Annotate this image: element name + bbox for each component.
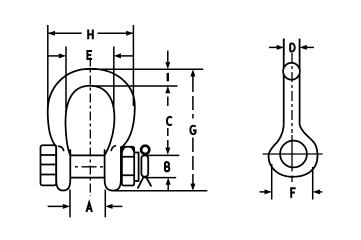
G dimension line with arrows: [190, 69, 195, 76]
nut facet line 2: [122, 174, 134, 176]
A dimension arrows (outside): [48, 205, 64, 207]
E dimension arrows (outside): [48, 55, 60, 57]
label C: [167, 117, 172, 125]
A extension line left: [69, 190, 71, 218]
bolt head facet line 3: [41, 174, 57, 176]
right view vertical centerline: [291, 53, 293, 133]
bow-section pinch arrow above: [167, 51, 169, 62]
cotter pin prong left: [138, 177, 144, 189]
G bottom extension line: [113, 190, 207, 192]
label A: [86, 203, 92, 212]
shank right edge: [299, 39, 301, 125]
pin end protrusion: [134, 153, 138, 182]
label D: [290, 44, 295, 52]
A extension line right: [104, 190, 106, 218]
G top extension line: [86, 68, 203, 70]
bolt head: [41, 145, 57, 185]
bow section circle: [283, 63, 300, 80]
B top extension line: [143, 154, 180, 156]
right ear shoulder: [111, 146, 115, 151]
E extension line right: [113, 47, 115, 111]
pin hole circle: [280, 141, 307, 168]
shank left edge: [283, 39, 285, 125]
nut: [122, 147, 134, 186]
label G: [190, 126, 195, 134]
left ear: [56, 146, 70, 191]
B bottom outside arrow: [166, 178, 171, 185]
H extension line left: [47, 25, 49, 108]
F extension ticks: [271, 164, 273, 200]
bolt head facet line 2: [41, 164, 57, 166]
H extension line right: [132, 25, 134, 106]
D extension ticks: [283, 39, 285, 56]
pin bottom line: [70, 177, 104, 179]
hole horizontal centerline: [263, 153, 323, 155]
right ear: [105, 147, 121, 191]
bow inner arc: [65, 86, 114, 156]
C top extension line: [93, 85, 178, 87]
D dimension arrows (outside): [269, 46, 278, 48]
label E: [87, 51, 92, 59]
vertical centerline: [89, 58, 91, 197]
ear blob with flares: [269, 125, 318, 177]
centerlines left view: [75, 58, 104, 197]
label B: [165, 162, 169, 171]
C dimension line with arrows: [165, 86, 170, 93]
bolt head facet line 1: [41, 154, 57, 156]
cotter pin body: [141, 155, 148, 177]
B bottom extension line: [143, 177, 176, 179]
label F: [291, 188, 296, 198]
H dimension line with arrows: [48, 32, 82, 34]
label H: [88, 30, 93, 40]
cotter pin ring: [141, 146, 149, 154]
nut top chamfer left: [122, 147, 125, 152]
bow-section pinch bar: [167, 73, 169, 81]
bow outer arc: [48, 69, 135, 148]
left ear shoulder: [59, 146, 64, 150]
pin top line: [70, 154, 104, 156]
F dimension arrows (outside): [260, 191, 267, 193]
nut top chamfer right: [131, 147, 134, 152]
E extension line left: [65, 47, 67, 113]
nut facet line 1: [122, 156, 134, 158]
pin horizontal centerline: [75, 166, 104, 168]
cotter pin prong right: [146, 177, 151, 186]
